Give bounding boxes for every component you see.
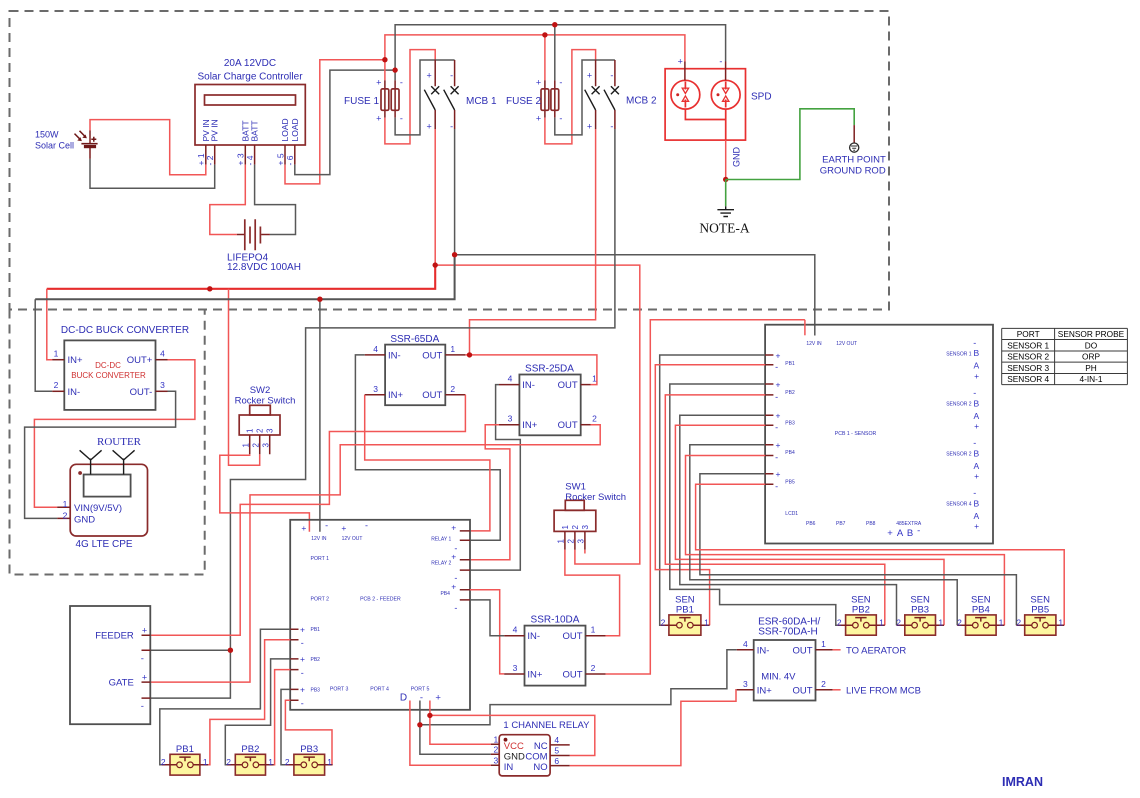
- wire dark main bus: [35, 255, 454, 300]
- svg-text:+: +: [974, 371, 979, 381]
- svg-text:- 2: - 2: [205, 155, 215, 165]
- PCB1 right SENSOR 1 labels: [946, 338, 979, 381]
- PCB2 right pin PB4: [460, 590, 470, 600]
- push button PB3: [286, 754, 333, 775]
- dcdc pin 1 IN+: [52, 359, 64, 361]
- svg-text:PB8: PB8: [866, 521, 876, 527]
- svg-text:1: 1: [494, 735, 499, 745]
- wire red top bus to SPD: [385, 35, 685, 81]
- svg-text:PCB 2 - FEEDER: PCB 2 - FEEDER: [360, 597, 401, 603]
- svg-text:ROUTER: ROUTER: [97, 436, 142, 448]
- svg-text:1: 1: [241, 443, 250, 448]
- junction dot: [228, 648, 233, 653]
- svg-text:3: 3: [581, 525, 590, 530]
- junction dot: [452, 252, 457, 257]
- wire red main bus: [47, 265, 435, 289]
- svg-text:RELAY 1: RELAY 1: [431, 536, 451, 542]
- svg-text:1 CHANNEL RELAY: 1 CHANNEL RELAY: [503, 720, 590, 731]
- svg-text:SENSOR 1: SENSOR 1: [1007, 340, 1049, 350]
- svg-text:PB1: PB1: [311, 627, 321, 633]
- dc-dc buck converter U2: [64, 340, 155, 410]
- svg-text:OUT: OUT: [558, 380, 578, 391]
- PCB2 right pin RELAY 2: [460, 560, 470, 570]
- svg-text:1: 1: [1058, 617, 1063, 627]
- svg-text:SPD: SPD: [751, 92, 772, 103]
- svg-text:SENSOR 4: SENSOR 4: [946, 502, 972, 508]
- svg-text:+: +: [776, 411, 781, 421]
- svg-text:PB5: PB5: [785, 479, 795, 485]
- svg-text:FUSE 1: FUSE 1: [344, 96, 379, 107]
- svg-text:150W: 150W: [35, 130, 59, 140]
- svg-text:Rocker Switch: Rocker Switch: [565, 492, 626, 503]
- svg-text:Solar Cell: Solar Cell: [35, 141, 74, 151]
- dashed border power section: [10, 11, 890, 310]
- svg-text:IN-: IN-: [68, 387, 81, 398]
- svg-text:2: 2: [591, 663, 596, 673]
- PCB1 left pin PB2: [765, 384, 773, 395]
- svg-text:DC-DC: DC-DC: [95, 361, 121, 370]
- svg-text:SENSOR PROBE: SENSOR PROBE: [1058, 329, 1125, 339]
- ESR pin 2 OUT live from mcb: [816, 689, 833, 691]
- svg-text:EARTH POINT: EARTH POINT: [822, 155, 886, 166]
- svg-text:+: +: [300, 625, 305, 635]
- SSR65 pin 3 IN+: [365, 394, 385, 396]
- controller pin stubs 1-6: [206, 145, 295, 165]
- svg-text:1: 1: [327, 757, 332, 767]
- push button SEN PB5: [1016, 615, 1064, 635]
- svg-text:2: 2: [256, 428, 265, 433]
- wire MCB1+ output down and bus: [434, 129, 436, 265]
- svg-text:A: A: [973, 361, 979, 371]
- svg-text:OUT-: OUT-: [130, 387, 153, 398]
- SSR10 pin 3 IN+: [504, 673, 524, 675]
- svg-text:1: 1: [879, 617, 884, 627]
- svg-text:PORT 3: PORT 3: [330, 687, 349, 693]
- svg-text:OUT+: OUT+: [127, 355, 153, 366]
- solid state relay SSR-10DA U8: [525, 626, 586, 686]
- wire PCB2 PB1+ to PB1 button pin2: [160, 629, 290, 765]
- junction dot: [467, 352, 472, 357]
- svg-text:1: 1: [561, 525, 570, 530]
- svg-text:SW2: SW2: [250, 385, 271, 396]
- breaker MCB2 (two pole): [585, 60, 619, 132]
- wire MCB2+ output to SSR OUT net: [470, 129, 596, 355]
- svg-text:NOTE-A: NOTE-A: [699, 221, 749, 236]
- svg-text:-: -: [775, 482, 778, 492]
- svg-text:PCB 1 - SENSOR: PCB 1 - SENSOR: [835, 431, 877, 437]
- wire green earth run: [726, 109, 855, 180]
- svg-text:-: -: [917, 526, 920, 537]
- junction dot: [417, 722, 422, 727]
- wire relay NO to ESR IN+: [570, 690, 737, 766]
- wire PCB2 PB3- to PB3 button pin1: [285, 700, 332, 765]
- svg-text:LCD1: LCD1: [785, 511, 798, 517]
- svg-text:+: +: [426, 122, 431, 132]
- svg-text:B: B: [973, 498, 979, 508]
- svg-text:2: 2: [251, 443, 260, 448]
- svg-text:3: 3: [160, 380, 165, 390]
- svg-text:-: -: [973, 388, 976, 398]
- svg-text:+: +: [300, 685, 305, 695]
- svg-text:IN-: IN-: [757, 645, 770, 656]
- svg-text:PB1: PB1: [785, 361, 795, 367]
- wire dark drop to fuse2: [554, 25, 556, 81]
- wire SSR65 IN+ to PCB2 RELAY1 +: [365, 395, 490, 531]
- svg-text:FUSE 2: FUSE 2: [506, 96, 541, 107]
- svg-text:SENSOR 4: SENSOR 4: [1007, 374, 1049, 384]
- push button SEN PB3: [897, 615, 945, 635]
- wire SW1 pin3 tail: [584, 550, 586, 554]
- svg-text:+: +: [974, 471, 979, 481]
- svg-text:+: +: [974, 421, 979, 431]
- SSR10 pin 1 OUT: [586, 635, 606, 637]
- push button PB2: [227, 754, 274, 775]
- PCB1 right SENSOR 2 labels: [946, 388, 979, 431]
- PCB2 left pin PB3: [290, 689, 298, 700]
- svg-text:RELAY 2: RELAY 2: [431, 560, 451, 566]
- SSR65 pin 2 OUT: [445, 394, 465, 396]
- svg-text:12V OUT: 12V OUT: [836, 341, 857, 347]
- FEEDER/GATE terminal box U9: [70, 606, 150, 724]
- svg-text:1: 1: [591, 625, 596, 635]
- svg-text:-: -: [400, 113, 403, 123]
- svg-text:SENSOR 2: SENSOR 2: [946, 452, 972, 458]
- svg-text:PB3: PB3: [911, 604, 929, 615]
- svg-text:PV IN: PV IN: [210, 119, 220, 141]
- svg-text:PB1: PB1: [676, 604, 694, 615]
- SSR25 pin 3 IN+: [499, 424, 519, 426]
- 1 channel relay module U10: [491, 735, 570, 776]
- wire SSR65 OUT1 to SSR25 OUT1: [465, 355, 597, 385]
- svg-text:LOAD: LOAD: [290, 118, 300, 141]
- wire PCB2 PB1- to PB1 button pin1: [208, 640, 290, 765]
- wire dark bus drop to PCB2 12V IN -: [319, 299, 321, 532]
- svg-text:IN+: IN+: [757, 685, 773, 696]
- svg-text:+: +: [301, 523, 306, 533]
- svg-text:PB6: PB6: [806, 521, 816, 527]
- svg-text:-: -: [450, 71, 453, 81]
- svg-text:PORT 4: PORT 4: [370, 687, 389, 693]
- wire LOAD+ up to fuse bus: [285, 60, 385, 184]
- svg-text:+: +: [776, 379, 781, 389]
- wire DCDC OUT- to router GND: [25, 391, 176, 518]
- PCB1 left pin PB3: [765, 415, 773, 425]
- svg-text:NC: NC: [534, 741, 548, 752]
- wire BATT+ to battery: [210, 165, 246, 235]
- ESR-60DA-H relay U11: [754, 640, 816, 701]
- wire port5- branch to ESR IN-: [420, 650, 737, 725]
- wire PV- to solar cell: [90, 159, 215, 188]
- rocker switch SW1: [554, 500, 596, 550]
- wire dark top bus to SPD: [395, 25, 725, 81]
- svg-text:1: 1: [704, 617, 709, 627]
- svg-text:SSR-70DA-H: SSR-70DA-H: [758, 627, 817, 638]
- svg-text:-: -: [141, 701, 144, 712]
- junction dot: [552, 22, 557, 27]
- svg-text:+: +: [451, 551, 456, 561]
- svg-text:+: +: [376, 77, 381, 87]
- svg-text:+: +: [536, 77, 541, 87]
- wire PCB1 PB4+ to SEN PB4 pin2: [690, 445, 957, 625]
- svg-text:OUT: OUT: [422, 350, 442, 361]
- wire fuse2- to MCB2: [555, 60, 615, 135]
- wire SSR65 IN- to PCB2 RELAY1 -: [355, 355, 500, 540]
- svg-text:IN-: IN-: [522, 380, 535, 391]
- svg-text:SENSOR 1: SENSOR 1: [946, 351, 972, 357]
- fuse F1 (two pole): [376, 77, 403, 123]
- wire PCB1 PB2- to SEN PB2 pin1: [665, 395, 885, 625]
- PCB1 left pin PB5: [765, 474, 773, 485]
- svg-text:SENSOR 2: SENSOR 2: [946, 402, 972, 408]
- PCB 1 - SENSOR board U6: [765, 325, 993, 544]
- svg-text:2: 2: [285, 757, 290, 767]
- svg-text:DO: DO: [1085, 340, 1098, 350]
- svg-text:-: -: [775, 453, 778, 463]
- svg-text:+: +: [776, 440, 781, 450]
- svg-text:LIVE FROM MCB: LIVE FROM MCB: [846, 686, 921, 697]
- svg-text:2: 2: [661, 617, 666, 627]
- svg-text:+: +: [435, 693, 441, 704]
- svg-text:+: +: [451, 581, 456, 591]
- svg-text:Rocker Switch: Rocker Switch: [235, 396, 296, 407]
- junction dot: [392, 67, 397, 72]
- svg-text:IN+: IN+: [68, 355, 84, 366]
- ESR pin 1 OUT to aerator: [816, 649, 833, 651]
- svg-text:OUT: OUT: [792, 645, 812, 656]
- svg-text:B: B: [973, 348, 979, 358]
- wire SSR25 IN- to PCB2 RELAY2 -: [470, 385, 520, 570]
- svg-text:FEEDER: FEEDER: [95, 631, 134, 642]
- solar cell PV1: [75, 131, 98, 159]
- svg-text:PB4: PB4: [440, 591, 450, 597]
- svg-text:- 6: - 6: [285, 155, 295, 165]
- svg-text:3: 3: [261, 443, 270, 448]
- svg-text:-: -: [559, 113, 562, 123]
- svg-text:4G LTE CPE: 4G LTE CPE: [76, 539, 133, 550]
- svg-text:1: 1: [821, 639, 826, 649]
- PCB1 left pin PB1: [765, 355, 773, 365]
- svg-text:IMRAN: IMRAN: [1002, 775, 1043, 789]
- junction dot: [382, 57, 387, 62]
- svg-text:12.8VDC 100AH: 12.8VDC 100AH: [227, 262, 301, 273]
- svg-text:+ 5: + 5: [275, 153, 285, 165]
- svg-text:DC-DC BUCK CONVERTER: DC-DC BUCK CONVERTER: [61, 325, 189, 336]
- svg-text:+: +: [536, 113, 541, 123]
- svg-text:2: 2: [1016, 617, 1021, 627]
- svg-text:2: 2: [450, 384, 455, 394]
- earth point symbol: [850, 125, 859, 152]
- table PORT / SENSOR PROBE: [1002, 328, 1128, 384]
- svg-text:4: 4: [513, 625, 518, 635]
- svg-text:Solar Charge Controller: Solar Charge Controller: [197, 72, 303, 83]
- svg-text:MCB 2: MCB 2: [626, 96, 657, 107]
- svg-text:B: B: [973, 449, 979, 459]
- wire PCB2 port5- to relay GND: [420, 701, 491, 755]
- svg-text:-: -: [559, 77, 562, 87]
- svg-text:3: 3: [743, 679, 748, 689]
- svg-text:6: 6: [554, 756, 559, 766]
- svg-text:PB4: PB4: [785, 450, 795, 456]
- svg-text:+: +: [587, 122, 592, 132]
- svg-text:+: +: [776, 469, 781, 479]
- push button SEN PB1: [661, 615, 710, 635]
- ESR pin 3 IN+: [737, 689, 754, 691]
- wire PCB2 D to relay IN: [410, 701, 491, 766]
- surge protection device SPD: [665, 56, 745, 140]
- wire DCDC OUT+ to router VIN: [34, 360, 195, 508]
- svg-text:SW1: SW1: [565, 482, 586, 493]
- fuse F2 (two pole): [536, 77, 563, 123]
- svg-text:-: -: [719, 56, 722, 66]
- svg-text:BATT: BATT: [250, 120, 260, 141]
- PCB 2 - FEEDER board U7: [290, 520, 470, 710]
- junction dot: [723, 177, 728, 182]
- wire MCB2- output to feeder/gate negatives: [230, 129, 615, 650]
- svg-text:IN-: IN-: [527, 631, 540, 642]
- svg-text:-: -: [454, 603, 457, 613]
- svg-text:+: +: [974, 521, 979, 531]
- svg-text:-: -: [973, 338, 976, 348]
- svg-text:+: +: [678, 56, 683, 66]
- svg-text:LOAD: LOAD: [280, 118, 290, 141]
- svg-text:2: 2: [957, 617, 962, 627]
- svg-text:-: -: [775, 422, 778, 432]
- svg-text:5: 5: [554, 746, 559, 756]
- push button PB1: [162, 754, 209, 775]
- svg-text:-: -: [450, 122, 453, 132]
- wire PCB1 PB1+ to SEN PB1 pin2: [660, 355, 765, 625]
- svg-text:12V OUT: 12V OUT: [342, 536, 363, 542]
- wire SSR25 IN+ to PCB2 RELAY2 +: [470, 425, 510, 560]
- wire PCB1 PB5+ to SEN PB5 pin2: [700, 474, 1017, 626]
- svg-text:PB2: PB2: [852, 604, 870, 615]
- svg-text:1: 1: [592, 374, 597, 384]
- wire fuse1- to MCB1: [395, 60, 455, 135]
- svg-text:PB7: PB7: [836, 521, 846, 527]
- svg-text:D: D: [400, 693, 407, 704]
- junction dot: [433, 262, 438, 267]
- svg-text:4: 4: [508, 374, 513, 384]
- wire MCB1- output down and bus: [454, 129, 456, 255]
- junction dot: [317, 297, 322, 302]
- svg-text:4: 4: [160, 349, 165, 359]
- svg-text:-: -: [365, 521, 368, 531]
- wire PCB1 PB2+ to SEN PB2 pin2: [670, 384, 838, 625]
- wire SPD to ground: [725, 140, 727, 179]
- SSR10 pin 4 IN-: [504, 635, 524, 637]
- svg-text:-: -: [141, 653, 144, 664]
- wire SSR25 OUT2 to FEEDER+: [150, 425, 600, 682]
- svg-text:GATE: GATE: [109, 678, 134, 689]
- svg-text:1: 1: [999, 617, 1004, 627]
- wire FEEDER- branch: [150, 649, 230, 651]
- SSR10 pin 2 OUT: [586, 673, 606, 675]
- svg-text:OUT: OUT: [558, 420, 578, 431]
- wire PCB2 PB4- to SSR10 IN-: [470, 600, 504, 636]
- wire BATT- to battery: [255, 165, 296, 235]
- svg-text:2: 2: [896, 617, 901, 627]
- svg-text:OUT: OUT: [422, 390, 442, 401]
- svg-text:PB2: PB2: [311, 657, 321, 663]
- svg-text:1: 1: [557, 539, 566, 544]
- svg-text:+: +: [776, 350, 781, 360]
- FEEDER pins: [142, 635, 151, 650]
- svg-text:OUT: OUT: [562, 631, 582, 642]
- svg-text:+: +: [142, 626, 147, 636]
- ground symbol: [717, 206, 734, 216]
- SSR65 pin 4 IN-: [365, 354, 385, 356]
- svg-text:+: +: [451, 523, 456, 533]
- svg-text:1: 1: [450, 344, 455, 354]
- svg-text:PB1: PB1: [176, 744, 194, 755]
- rocker switch SW2: [239, 405, 280, 454]
- wire red drop to fuse2: [544, 35, 546, 81]
- svg-text:SENSOR 3: SENSOR 3: [1007, 363, 1049, 373]
- svg-text:+: +: [341, 523, 346, 533]
- wire red bus drop to SW2 pin2: [229, 289, 260, 465]
- svg-text:-: -: [301, 638, 304, 648]
- svg-text:12V IN: 12V IN: [806, 341, 822, 347]
- svg-text:PB3: PB3: [785, 420, 795, 426]
- svg-text:TO AERATOR: TO AERATOR: [846, 646, 906, 657]
- wire PCB1 PB4- to SEN PB4 pin1: [686, 456, 1005, 626]
- svg-text:1: 1: [938, 617, 943, 627]
- svg-text:SSR-10DA: SSR-10DA: [531, 615, 580, 626]
- wire PCB2 PB4+ to SSR10 IN+: [470, 590, 504, 674]
- ESR pin 4 IN-: [737, 649, 754, 651]
- router 4G LTE CPE U3: [57, 450, 147, 536]
- SSR65 pin 1 OUT: [445, 354, 465, 356]
- svg-text:B: B: [973, 399, 979, 409]
- breaker MCB1 (two pole): [424, 60, 458, 132]
- svg-text:+: +: [142, 673, 147, 683]
- svg-text:B: B: [907, 528, 913, 539]
- junction dot: [542, 32, 547, 37]
- wire PCB2 PB2+ to PB2 button pin2: [225, 659, 290, 765]
- SSR25 pin 2 OUT: [581, 424, 591, 426]
- PCB1 right SENSOR 2 labels (third group): [946, 438, 979, 481]
- svg-text:20A 12VDC: 20A 12VDC: [224, 58, 276, 69]
- wire PCB1 PB3+ to SEN PB3 pin2: [680, 415, 897, 625]
- svg-text:2: 2: [837, 617, 842, 627]
- svg-text:2: 2: [161, 757, 166, 767]
- svg-text:4: 4: [743, 639, 748, 649]
- svg-text:-: -: [610, 71, 613, 81]
- svg-text:-: -: [301, 699, 304, 709]
- svg-text:GROUND ROD: GROUND ROD: [820, 166, 886, 177]
- svg-text:-: -: [325, 521, 328, 531]
- dcdc pin 2 IN-: [52, 390, 64, 392]
- PCB1 12V IN wires: [804, 320, 806, 336]
- svg-text:IN-: IN-: [388, 350, 401, 361]
- PCB2 left pin PB2: [290, 659, 298, 670]
- svg-text:-: -: [610, 122, 613, 132]
- GATE pins: [142, 682, 151, 698]
- svg-text:+: +: [426, 71, 431, 81]
- wire dark east run to PCB1 12V IN -: [455, 255, 815, 336]
- svg-text:A: A: [973, 411, 979, 421]
- SSR25 pin 4 IN-: [499, 384, 519, 386]
- svg-text:SSR-65DA: SSR-65DA: [390, 334, 439, 345]
- svg-text:PB2: PB2: [785, 390, 795, 396]
- wire SW2 pin1 to PCB2 12V IN +: [220, 454, 310, 532]
- svg-text:IN+: IN+: [388, 390, 404, 401]
- push button SEN PB2: [837, 615, 885, 635]
- svg-text:4: 4: [373, 344, 378, 354]
- svg-text:OUT: OUT: [562, 670, 582, 681]
- svg-text:3: 3: [266, 428, 275, 433]
- svg-text:NO: NO: [533, 762, 547, 773]
